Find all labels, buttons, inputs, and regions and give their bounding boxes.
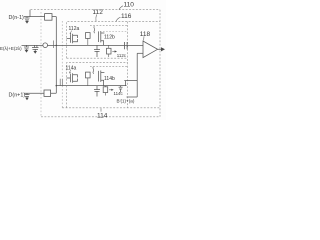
op-amp output wire	[158, 48, 162, 50]
capacitor to ground 2 on rail2	[32, 45, 39, 51]
sub-box 116 dashed line upper	[90, 25, 128, 27]
small box component in box 112	[86, 33, 91, 39]
svg-text:B'(1)+(a): B'(1)+(a)	[117, 99, 135, 104]
inner dashed box 112	[67, 22, 160, 59]
outer dashed box 110 top edge	[31, 9, 161, 11]
switch box SW3 on rail3	[44, 90, 51, 96]
tick crossing rail2	[53, 41, 55, 49]
transistor Q2 in box 112	[99, 31, 105, 45]
gate squiggle in box 112	[93, 26, 96, 33]
transistor Q4 in box 114	[99, 71, 105, 86]
transistor Q1 in box 112	[67, 34, 78, 43]
ground arrow on rail2 cap 1	[25, 50, 29, 53]
hold capacitor in box 114	[94, 86, 100, 97]
output arrowhead	[161, 47, 165, 51]
svg-text:110: 110	[124, 1, 135, 8]
svg-text:112: 112	[93, 9, 104, 16]
inner dashed box 114	[67, 63, 128, 108]
junction dots	[56, 45, 58, 47]
arrow to label 112c	[112, 51, 115, 53]
outer dashed box 110 left stub at x=30	[29, 10, 31, 17]
gate squiggle in box 114	[92, 67, 95, 74]
switch circle SW2 on rail2	[43, 43, 48, 48]
capacitor to ground on rail1	[25, 17, 30, 21]
wire into box 114	[56, 85, 126, 87]
svg-text:114b: 114b	[104, 76, 115, 82]
capacitor 3 below wire in box 114	[119, 86, 123, 93]
wire rail3 D(n+1)	[24, 92, 56, 94]
capacitor to ground on rail3	[25, 93, 30, 97]
middle dashed box left edge x=62	[61, 21, 63, 108]
transistor Q3 in box 114	[67, 73, 78, 82]
outer dashed box 110 bottom edge	[41, 116, 160, 118]
wire rail1 D(n-1)	[24, 16, 56, 18]
svg-text:118: 118	[140, 31, 151, 38]
sub line in box 114	[90, 65, 128, 67]
switch box SW1 on rail1	[45, 14, 52, 21]
vertical bus joining rails	[55, 17, 57, 94]
feedback vertical wire	[136, 53, 138, 97]
svg-text:D(n-1): D(n-1)	[9, 15, 24, 21]
wire rail2 E input to op-amp	[22, 44, 144, 46]
op-amp U1 triangle	[143, 41, 158, 58]
ground arrow on rail2 cap 2	[33, 51, 37, 54]
output tap stub in box 114	[125, 81, 127, 86]
op-amp inverting input wire	[137, 52, 143, 54]
feedback wire bottom segment	[127, 96, 138, 98]
svg-text:112c: 112c	[117, 53, 127, 58]
arrow to label 114c	[109, 89, 112, 91]
ground arrow on rail1 cap	[25, 21, 29, 24]
crossing ticks on wire114	[60, 79, 62, 86]
outer dashed box 110 right edge	[159, 10, 161, 117]
svg-text:114a: 114a	[66, 65, 77, 71]
svg-text:116: 116	[121, 13, 132, 20]
hold capacitor in box 112	[94, 45, 100, 57]
svg-text:D(n+1): D(n+1)	[9, 93, 26, 99]
inner boxes shared right edge	[127, 22, 129, 108]
small box component 2 below wire in box 114	[103, 87, 108, 93]
outer dashed box 110 left edge	[40, 12, 42, 117]
svg-text:E(λ)+E(2λ): E(λ)+E(2λ)	[0, 46, 22, 51]
capacitor to ground 1 on rail2	[24, 45, 29, 50]
small box component 2 below wire in box 112	[107, 48, 112, 54]
sub-box 116 dashed line lower	[103, 31, 127, 33]
series capacitor at box 112 output	[125, 42, 128, 49]
feedback wire top segment	[124, 80, 137, 82]
ground arrow on rail3 cap	[25, 98, 29, 101]
svg-text:112b: 112b	[104, 35, 115, 41]
small box component in box 114	[86, 72, 91, 78]
svg-text:112a: 112a	[69, 26, 80, 32]
box 114 bottom edge extended to outer right edge	[62, 107, 160, 109]
svg-text:114c: 114c	[114, 91, 124, 96]
svg-text:114: 114	[97, 112, 108, 119]
